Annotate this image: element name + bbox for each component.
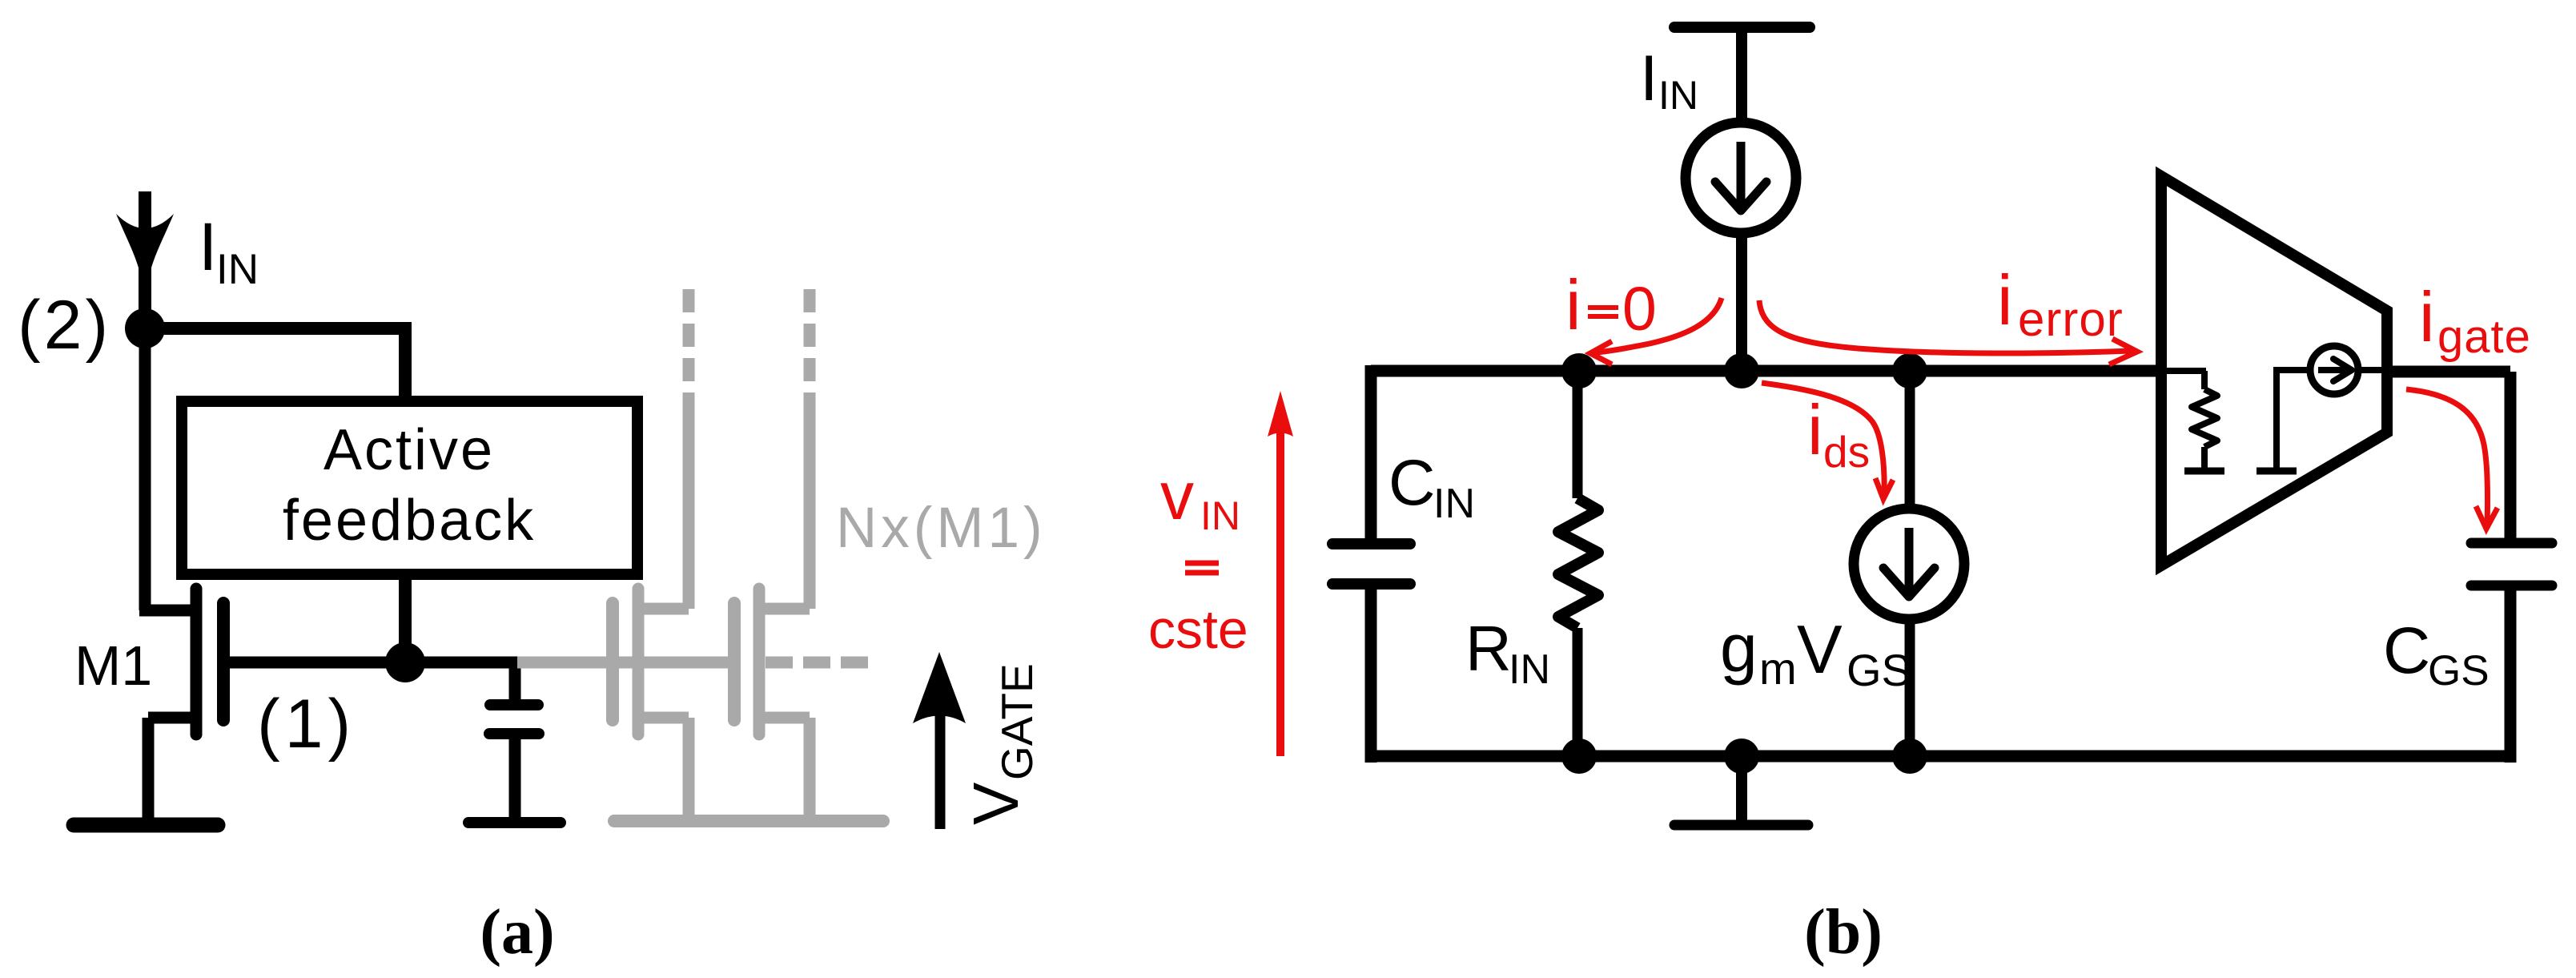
transistor Nx gray T1 channel bar — [633, 589, 645, 735]
wire bottom rail — [1371, 751, 2510, 763]
svg-text:v: v — [1160, 458, 1194, 533]
svg-text:R: R — [1465, 613, 1512, 684]
arrow i_ds — [1762, 383, 1893, 499]
wire gray T2 drain up solid — [804, 400, 816, 609]
capacitor C_GS top plate — [2471, 538, 2552, 549]
controlled source gmVGS leads — [1905, 371, 1915, 513]
svg-text:GATE: GATE — [992, 663, 1042, 780]
svg-text:I: I — [199, 209, 217, 284]
wire node1 to capacitor — [405, 657, 517, 669]
wire output down to C_GS — [2505, 372, 2517, 540]
arrow V_GATE — [913, 652, 966, 829]
transistor Nx gray T1 gate bar — [606, 603, 619, 720]
arrow v_IN — [1268, 391, 1293, 756]
wire C_IN bottom lead — [1365, 588, 1377, 763]
wire C_GS bottom lead — [2505, 590, 2517, 763]
svg-text:(b): (b) — [1804, 897, 1883, 968]
ground M1 — [74, 818, 218, 833]
svg-text:GS: GS — [2428, 647, 2490, 694]
wire top rail — [1371, 365, 2161, 377]
svg-text:Active: Active — [324, 418, 495, 482]
wire M1 drain vertical — [139, 322, 151, 610]
ground (b) stub — [1736, 756, 1747, 822]
wire gray T1 drain dashed — [683, 289, 695, 404]
svg-text:ds: ds — [1823, 427, 1870, 477]
svg-text:cste: cste — [1148, 599, 1248, 660]
ground buffer resistor — [2184, 468, 2224, 475]
current source buffer arrow — [2318, 359, 2352, 381]
node dot top left — [1561, 353, 1597, 388]
capacitor C1 top plate — [490, 699, 538, 710]
svg-text:C: C — [2383, 614, 2430, 687]
svg-text:V: V — [1797, 612, 1843, 688]
wire source to node — [1736, 233, 1747, 371]
transistor M1 channel bar — [191, 589, 203, 735]
ground capacitor — [468, 817, 561, 828]
transistor Nx gray T2 channel bar — [754, 589, 766, 735]
node dot bottom left — [1561, 739, 1597, 774]
wire gray T2 drain lead — [759, 603, 810, 615]
svg-text:error: error — [2018, 292, 2124, 346]
arrow i_error — [1759, 300, 2137, 364]
capacitor C_IN top plate — [1332, 538, 1410, 549]
transistor M1 gate bar — [217, 603, 230, 720]
svg-text:IN: IN — [1509, 646, 1550, 693]
current source I_IN circle — [1686, 123, 1796, 233]
wire gray T1 source down — [683, 718, 695, 817]
label i=0 — [1565, 265, 1657, 344]
ground buffer cs — [2257, 468, 2297, 475]
transistor Nx gray T2 gate bar — [728, 603, 741, 720]
svg-text:gate: gate — [2437, 311, 2531, 363]
current source buffer circle — [2310, 346, 2358, 394]
label i_error — [1997, 260, 2124, 346]
wire capacitor bottom lead — [509, 737, 521, 819]
label R_IN — [1465, 613, 1550, 693]
node dot bottom right — [1892, 739, 1927, 774]
wire gray T1 drain lead — [638, 603, 689, 615]
svg-text:IN: IN — [216, 246, 259, 293]
wire gray T2 source lead — [759, 712, 810, 724]
wire I_IN input vertical — [139, 191, 151, 328]
wire node2 to feedback box — [145, 328, 405, 409]
capacitor C1 bottom plate — [489, 728, 539, 739]
arrow i_gate — [2406, 389, 2498, 529]
resistor buffer internal — [2192, 371, 2217, 468]
wire M1 source lead — [148, 712, 196, 724]
label i_ds — [1807, 390, 1870, 477]
wire left branch down — [1365, 365, 1377, 540]
wire gray T2 source down — [804, 718, 816, 817]
wire M1 gate lead to node1 — [223, 657, 405, 669]
svg-text:M1: M1 — [74, 634, 152, 697]
svg-text:C: C — [1388, 447, 1436, 519]
svg-text:V: V — [960, 782, 1031, 825]
label C_GS — [2383, 614, 2490, 694]
svg-text:i: i — [2419, 277, 2435, 356]
current source I_IN arrow — [1715, 142, 1766, 211]
capacitor C_GS bottom plate — [2471, 581, 2552, 591]
wire M1 source down — [143, 718, 155, 819]
svg-text:(a): (a) — [480, 897, 554, 968]
wire gray T1 drain up solid — [683, 400, 695, 609]
wire buffer cs left — [2277, 370, 2311, 468]
node dot bottom center — [1724, 739, 1759, 774]
wire buffer output — [2381, 366, 2510, 378]
wire capacitor top lead — [509, 662, 521, 702]
svg-text:(2): (2) — [18, 287, 111, 364]
svg-text:IN: IN — [1658, 73, 1698, 118]
wire buffer cs to output — [2358, 367, 2387, 373]
arrowhead I_IN input — [116, 214, 174, 284]
label gmVGS — [1720, 610, 1911, 695]
svg-text:IN: IN — [1200, 493, 1240, 538]
svg-text:Nx(M1): Nx(M1) — [836, 497, 1047, 560]
node (2) dot — [125, 308, 165, 348]
wire gray T2 drain dashed — [804, 289, 816, 404]
label Active feedback — [283, 418, 536, 553]
svg-text:i: i — [1997, 260, 2013, 340]
wire gray dashed gate stub — [766, 657, 869, 669]
node dot top right — [1892, 353, 1927, 388]
label I_IN (a) — [199, 209, 259, 293]
ground gray — [614, 815, 883, 827]
wire supply to source — [1736, 27, 1747, 127]
svg-text:GS: GS — [1847, 645, 1911, 695]
wire buffer input stub — [2161, 368, 2206, 374]
arrow i=0 — [1590, 298, 1722, 364]
svg-text:feedback: feedback — [283, 489, 536, 553]
resistor R_IN — [1558, 371, 1598, 756]
ground (b) bar — [1674, 820, 1808, 831]
svg-text:I: I — [1640, 42, 1658, 115]
svg-text:m: m — [1759, 643, 1797, 694]
wire M1 drain lead — [139, 605, 196, 617]
node (1) dot — [385, 642, 425, 682]
node dot top center — [1724, 353, 1759, 388]
svg-text:i: i — [1807, 390, 1823, 469]
wire gray T1 source lead — [638, 712, 689, 724]
label v_IN = cste — [1148, 458, 1248, 660]
label I_IN (b) — [1640, 42, 1698, 118]
svg-text:0: 0 — [1622, 275, 1657, 344]
svg-text:g: g — [1720, 610, 1758, 686]
controlled source gmVGS arrow — [1883, 528, 1935, 597]
wire feedback box to node1 — [399, 574, 412, 662]
wire gmVGS bottom lead — [1905, 616, 1915, 756]
svg-text:IN: IN — [1433, 481, 1475, 527]
wire gray gate line — [517, 657, 734, 669]
op-amp buffer body — [2161, 176, 2387, 565]
supply bar I_IN — [1674, 22, 1810, 33]
capacitor C_IN bottom plate — [1332, 578, 1410, 590]
active feedback box — [182, 401, 637, 574]
label C_IN — [1388, 447, 1475, 527]
controlled source gmVGS circle — [1854, 509, 1964, 619]
label i_gate — [2419, 277, 2531, 363]
svg-text:i: i — [1565, 265, 1581, 344]
label V_GATE — [960, 663, 1042, 825]
svg-text:(1): (1) — [257, 686, 356, 763]
